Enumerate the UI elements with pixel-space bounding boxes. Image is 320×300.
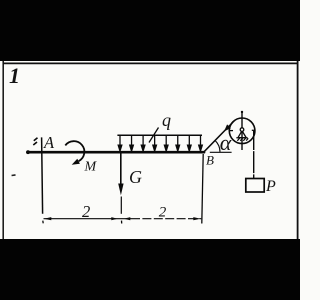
frame left border xyxy=(2,61,4,239)
svg-text:B: B xyxy=(206,153,214,168)
pulley axle circle xyxy=(240,128,244,132)
dimension line right span xyxy=(131,218,201,220)
q leader line xyxy=(149,128,159,143)
pulley support triangle xyxy=(238,131,246,138)
pulley axle vertical line xyxy=(241,112,243,151)
rope tension arrowhead xyxy=(224,124,231,131)
svg-text:M: M xyxy=(84,160,98,175)
rope from B to pulley xyxy=(204,122,233,152)
rope from pulley down to weight xyxy=(253,131,255,179)
svg-text:1: 1 xyxy=(9,63,20,88)
svg-text:2: 2 xyxy=(82,202,90,221)
ink speck left margin xyxy=(11,174,15,176)
bottom black bar xyxy=(0,239,300,300)
support A hatching xyxy=(33,138,37,145)
dimension line left span xyxy=(44,218,132,220)
frame right border xyxy=(297,61,299,239)
frame top border xyxy=(3,62,298,64)
svg-text:A: A xyxy=(43,133,55,152)
dimension extension line under G xyxy=(120,197,122,214)
weight P block xyxy=(246,179,264,193)
dimension extension tick under A below line xyxy=(42,221,44,224)
pulley wheel xyxy=(229,118,255,144)
angle arc alpha xyxy=(215,141,220,152)
top black bar xyxy=(0,0,300,61)
beam AB xyxy=(28,151,205,154)
svg-text:G: G xyxy=(129,167,142,187)
dimension arrowheads xyxy=(44,217,201,220)
distributed load arrows xyxy=(118,135,202,151)
dimension extension tick under G below line xyxy=(121,221,123,224)
beam left end knob xyxy=(26,150,30,154)
moment M arc xyxy=(65,141,84,161)
dimension extension line under B xyxy=(202,154,203,224)
force G arrow xyxy=(120,153,122,186)
pulley centerline ticks xyxy=(229,130,233,132)
svg-text:P: P xyxy=(265,178,276,195)
angle reference line at B xyxy=(210,151,232,153)
distributed load top line xyxy=(117,134,202,136)
pulley support base hatching xyxy=(236,138,248,141)
moment M arrowhead xyxy=(72,159,80,165)
svg-text:q: q xyxy=(162,110,171,130)
support A vertical line xyxy=(42,137,43,213)
pulley axle top knob xyxy=(241,111,243,113)
svg-text:2: 2 xyxy=(159,204,167,220)
